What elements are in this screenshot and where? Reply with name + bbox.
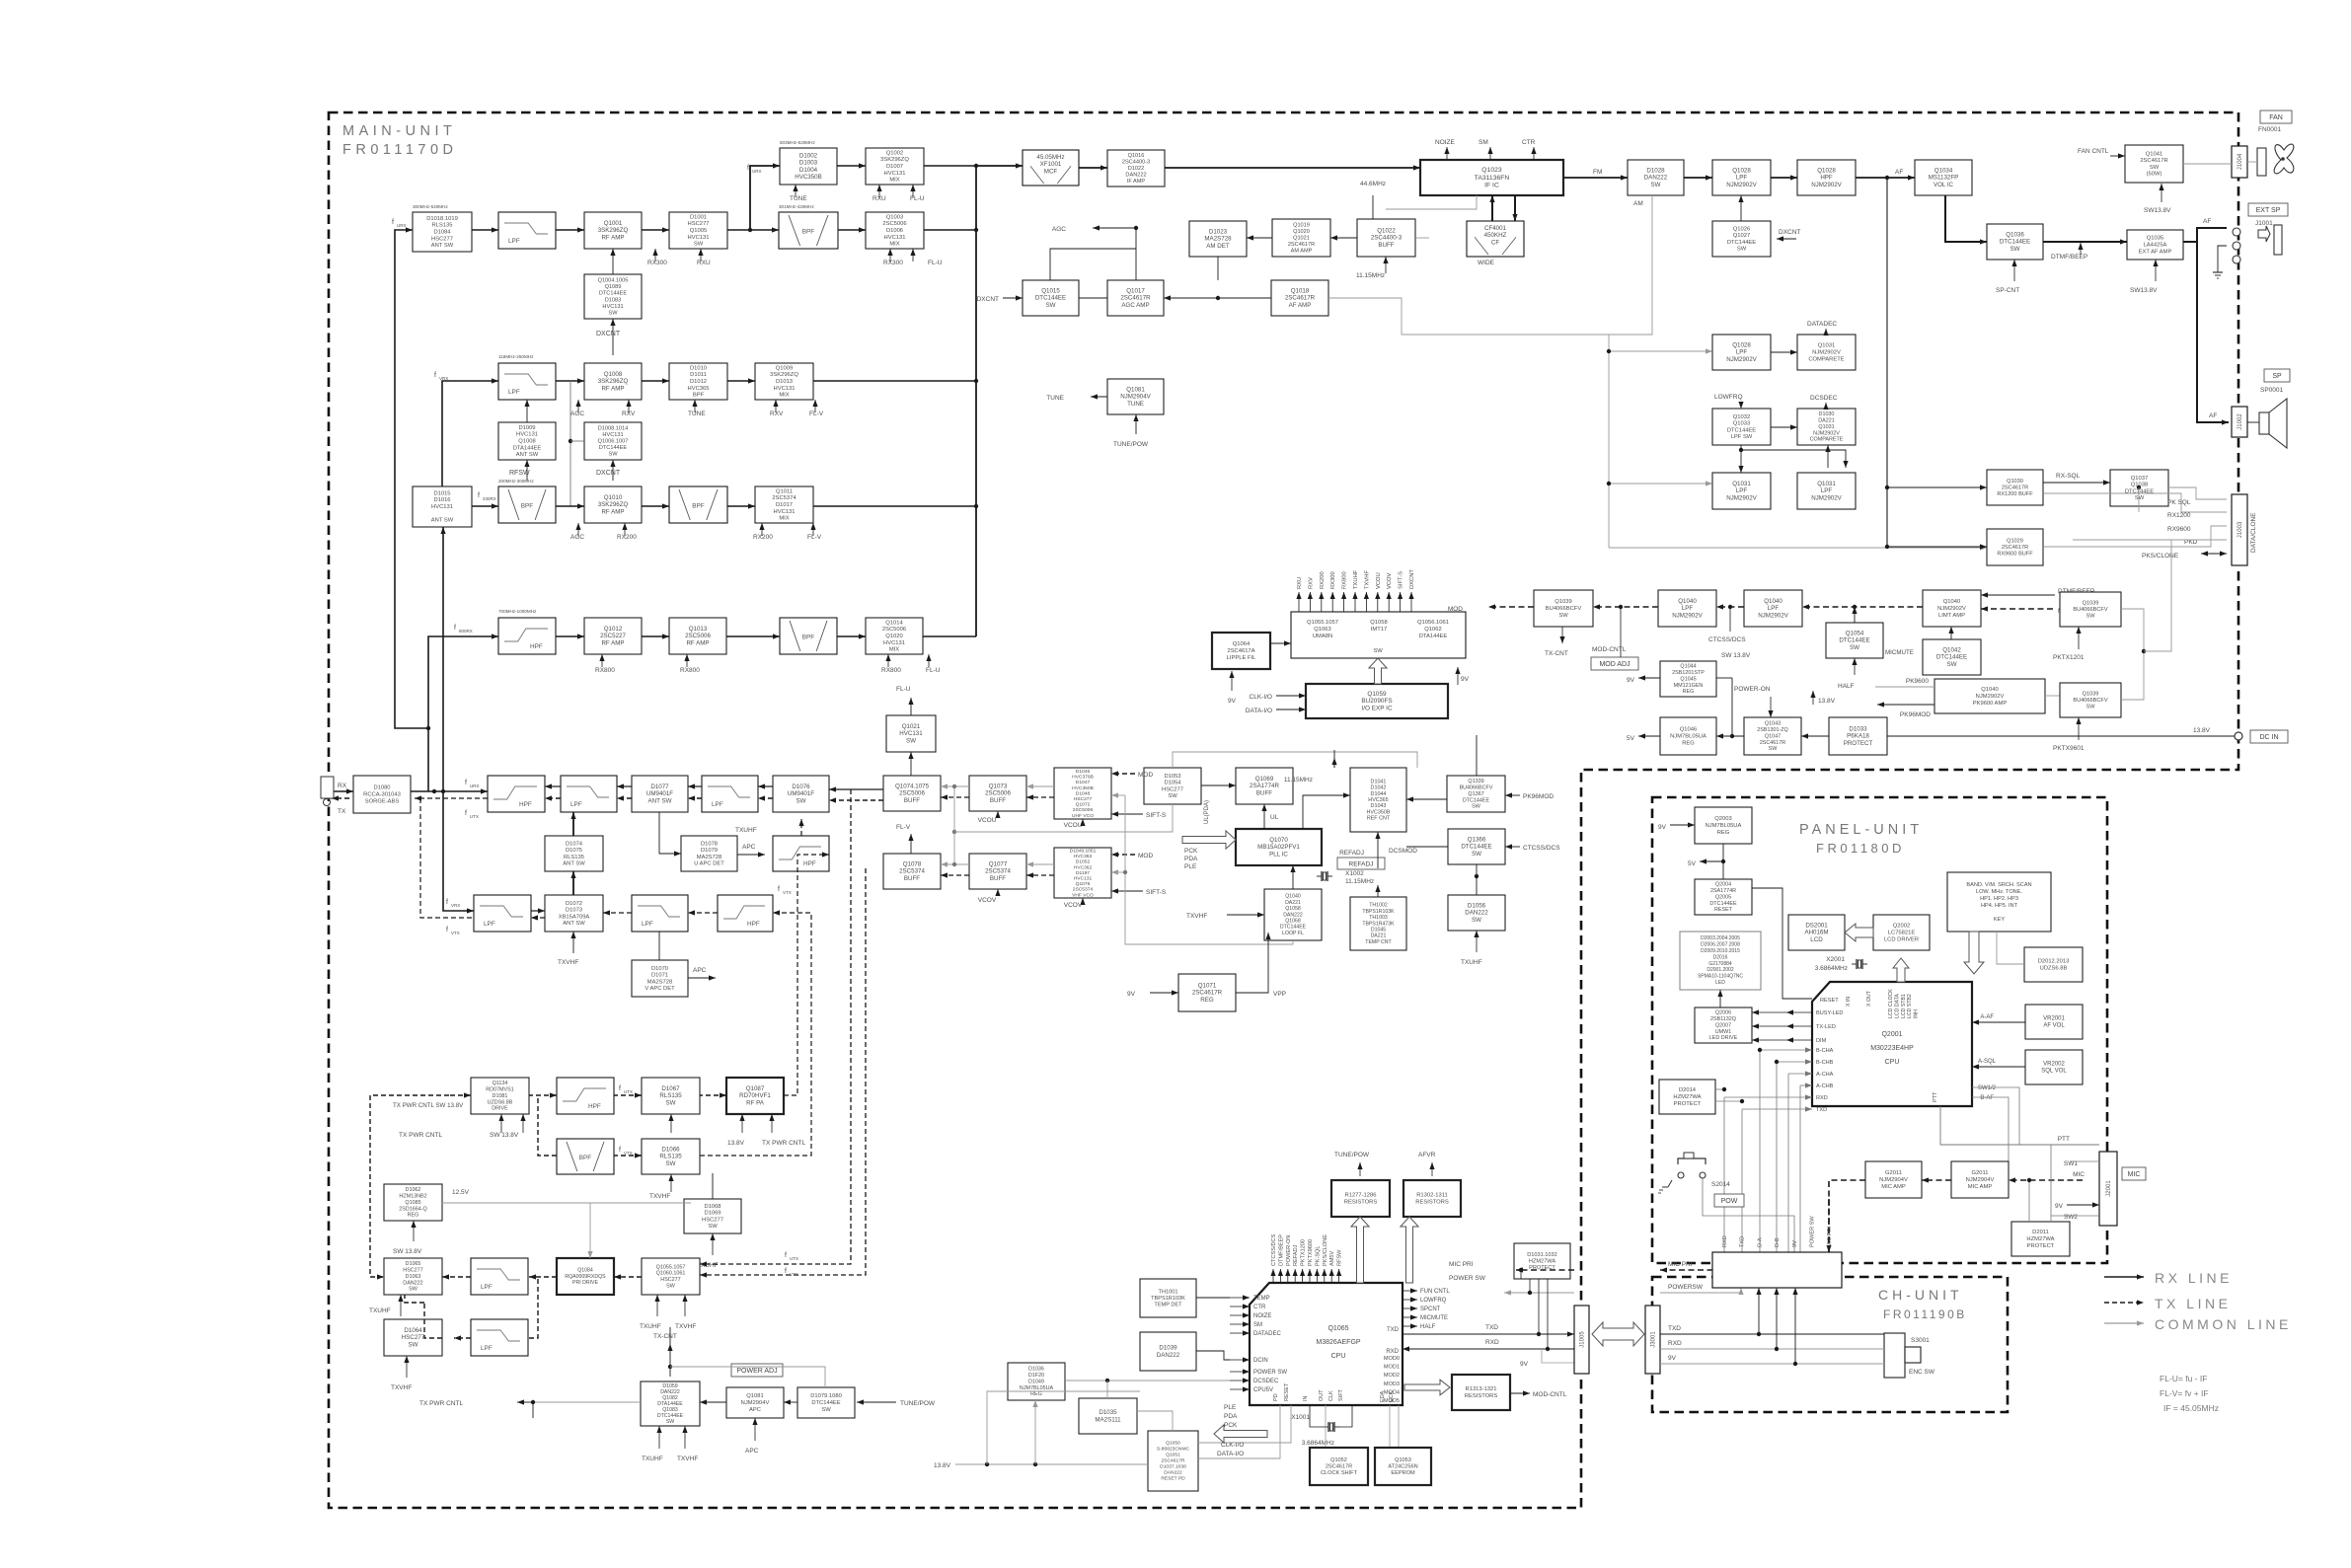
svg-text:D1077: D1077 — [650, 784, 669, 790]
RF amp Q1012 — [584, 618, 642, 654]
svg-text:SW: SW — [821, 1407, 831, 1413]
RXV stub Q1009 — [773, 400, 778, 412]
svg-text:9V: 9V — [1668, 1355, 1677, 1362]
svg-text:CPU: CPU — [1885, 1059, 1900, 1066]
svg-text:FR01180D: FR01180D — [1816, 841, 1905, 856]
buffer Q1022 — [1357, 219, 1415, 257]
wire 12.5V to D1068 row — [442, 1202, 691, 1204]
wire Q2004 to CPU RESET — [1752, 888, 1812, 999]
svg-text:11.15MHz: 11.15MHz — [1345, 878, 1374, 885]
svg-text:RX800: RX800 — [881, 667, 901, 674]
CPU right arrow FUN CNTL — [1403, 1288, 1417, 1293]
MAIN-UNIT dashed border — [329, 112, 2238, 1508]
resistor network R1313-1321 — [1452, 1375, 1510, 1410]
switch Q1021 — [886, 715, 936, 752]
junction AGC line — [1216, 296, 1220, 300]
switch D1067 — [642, 1078, 700, 1114]
wire Q1064 to SW block — [1270, 640, 1291, 645]
panel bottom connector — [1712, 1252, 1842, 1288]
svg-text:FR011170D: FR011170D — [342, 142, 458, 158]
svg-text:RD70HVF1: RD70HVF1 — [739, 1092, 771, 1099]
svg-text:RD07MVS1: RD07MVS1 — [486, 1087, 513, 1093]
svg-text:RX300: RX300 — [883, 260, 903, 266]
wire row3-row5 link vertical — [569, 381, 571, 506]
svg-text:CTCSS/DCS: CTCSS/DCS — [1523, 845, 1560, 852]
AF trunk down to SP — [2197, 242, 2229, 425]
svg-text:MA2S111: MA2S111 — [1095, 1416, 1121, 1423]
svg-text:DTC144EE: DTC144EE — [1035, 295, 1066, 302]
svg-text:SW: SW — [1472, 804, 1481, 810]
TXVHF stub D1066 — [668, 1174, 673, 1192]
svg-text:VCOU: VCOU — [1376, 572, 1382, 589]
svg-text:LED: LED — [1715, 980, 1725, 986]
svg-text:HVC131: HVC131 — [774, 509, 796, 515]
svg-text:D1081: D1081 — [493, 1093, 508, 1099]
RX800 stub Q1012 — [599, 654, 604, 667]
stub PK SQL down — [2138, 487, 2140, 512]
svg-text:DTC144EE: DTC144EE — [1727, 240, 1756, 246]
wire Q1015-Q1017 — [1079, 297, 1107, 299]
svg-text:Q1008: Q1008 — [604, 371, 623, 378]
AF amp Q1018 — [1271, 280, 1328, 316]
svg-text:Q1367: Q1367 — [1468, 791, 1483, 797]
svg-text:Q1040: Q1040 — [1678, 598, 1697, 605]
wire Q1003 out — [924, 229, 976, 231]
EEPROM Q1053 — [1375, 1448, 1431, 1485]
svg-text:503MHz-520MHz: 503MHz-520MHz — [780, 140, 815, 145]
TX dashed riser x375 — [370, 1095, 449, 1280]
wire D1072 to V APC — [658, 932, 660, 960]
svg-text:B-CHA: B-CHA — [1816, 1048, 1834, 1054]
wire Q1008-D1010 — [642, 378, 669, 383]
svg-text:301MHz-420MHz: 301MHz-420MHz — [779, 204, 814, 209]
svg-text:D1069: D1069 — [704, 1211, 720, 1217]
junction PK SQL — [2137, 485, 2141, 489]
svg-text:FL-V: FL-V — [807, 534, 822, 541]
wire SW1 line — [2019, 1144, 2099, 1146]
buffer Q1069 — [1236, 768, 1293, 804]
wire ant row dashed LPF-D1077 — [617, 795, 632, 800]
MOD ADJ boxed label — [1591, 657, 1638, 670]
svg-text:DTC144EE: DTC144EE — [2000, 239, 2030, 246]
svg-text:RX9600: RX9600 — [2167, 526, 2191, 533]
svg-text:CPU: CPU — [1331, 1353, 1346, 1360]
wire CPU pin NOIZE — [1230, 1312, 1250, 1317]
junction CH RXD — [1775, 1347, 1779, 1351]
TXUHF stub D1068 — [710, 1233, 715, 1255]
wire Q1010-BPF2 — [642, 503, 669, 508]
svg-text:2SC5006: 2SC5006 — [1073, 807, 1094, 813]
svg-text:PTT: PTT — [2058, 1136, 2070, 1143]
svg-text:SW: SW — [2086, 705, 2095, 710]
protect vertical 2 — [1529, 1279, 1531, 1293]
wire Q1034 to Q1036 — [1945, 195, 1987, 245]
BPF TX VHF — [557, 1139, 614, 1174]
svg-text:D1012: D1012 — [690, 379, 707, 385]
5V arrow Q1046 — [1638, 733, 1660, 738]
svg-text:SW: SW — [409, 1287, 418, 1293]
loop filter Q1040/Q1058/Q1068 — [1264, 889, 1322, 940]
svg-text:AF VOL: AF VOL — [2043, 1023, 2065, 1029]
TXVHF stub D1059 — [682, 1426, 687, 1449]
resistor network R1302-1311 — [1403, 1180, 1461, 1217]
svg-text:Q1036: Q1036 — [2006, 232, 2024, 239]
svg-text:UDZS6.8B: UDZS6.8B — [2040, 965, 2068, 971]
wire Q1004 to Q1001 — [610, 249, 615, 274]
svg-text:SIFT-S: SIFT-S — [1146, 889, 1167, 896]
wire LED driver to LED — [1717, 990, 1722, 1008]
f VTX dashed riser x426 — [420, 798, 474, 918]
svg-text:RX-SQL: RX-SQL — [2056, 473, 2081, 480]
svg-text:HSC277: HSC277 — [402, 1334, 425, 1341]
wire D1068 up — [712, 1173, 714, 1199]
svg-text:DTC144EE: DTC144EE — [599, 291, 628, 297]
svg-text:SIFT-S: SIFT-S — [1399, 571, 1404, 589]
svg-text:f: f — [446, 927, 448, 933]
switch D1056 — [1448, 895, 1505, 931]
junction bus row1 — [974, 164, 978, 168]
svg-text:Q1062: Q1062 — [1424, 627, 1441, 633]
svg-text:SW: SW — [1558, 613, 1568, 619]
HPF row6 — [498, 618, 556, 654]
svg-text:D1071: D1071 — [651, 973, 668, 979]
svg-text:DXCNT: DXCNT — [1409, 569, 1415, 589]
svg-text:SW1/2: SW1/2 — [1978, 1085, 1997, 1091]
svg-text:TUNE/POW: TUNE/POW — [1334, 1152, 1370, 1158]
buffer Q1073 — [969, 776, 1026, 811]
svg-text:D1079.1080: D1079.1080 — [810, 1393, 842, 1399]
AFVR stub R1302 — [1429, 1162, 1434, 1176]
regulator D1062/Q1085 — [384, 1184, 442, 1221]
svg-text:PTT: PTT — [1933, 1091, 1938, 1102]
svg-text:D1016: D1016 — [433, 497, 450, 503]
POWER ADJ boxed label — [731, 1364, 783, 1377]
svg-text:NJM2902V: NJM2902V — [1812, 350, 1841, 356]
svg-text:9V: 9V — [1658, 824, 1667, 831]
LPF Q1040 b — [1744, 590, 1802, 627]
svg-text:HVC365: HVC365 — [688, 386, 710, 392]
antenna switch D1074/D1075 — [545, 836, 603, 871]
open arrow PLE PDA PCK out of CPU — [1214, 1425, 1267, 1443]
svg-text:POWER SW: POWER SW — [1253, 1370, 1287, 1376]
svg-text:RXU: RXU — [697, 260, 711, 266]
svg-text:VCOU: VCOU — [1064, 822, 1083, 829]
TX-CNT riser — [667, 1344, 672, 1377]
svg-text:Q2003: Q2003 — [1714, 816, 1731, 822]
antenna switch D1072/D1073 — [545, 895, 603, 932]
svg-text:Q1063: Q1063 — [1314, 627, 1330, 633]
PKTX9601 stub — [2076, 717, 2081, 740]
RF amp Q1010 — [584, 486, 642, 523]
svg-text:Q1058: Q1058 — [1370, 620, 1387, 626]
svg-text:TUNE: TUNE — [790, 195, 807, 202]
svg-text:D1041: D1041 — [1371, 779, 1387, 784]
svg-text:TXVHF: TXVHF — [649, 1193, 670, 1200]
svg-text:BU4066BCFV: BU4066BCFV — [2073, 607, 2107, 613]
buffer Q1078 — [883, 854, 941, 889]
svg-text:2SC5006: 2SC5006 — [882, 221, 906, 227]
PKTX1201 stub — [2076, 627, 2081, 649]
svg-text:X2001: X2001 — [1826, 956, 1845, 963]
svg-text:TX-CNT: TX-CNT — [1545, 650, 1568, 657]
svg-text:Q1023: Q1023 — [1481, 167, 1502, 174]
wire TXD to J1005 — [1403, 1331, 1574, 1336]
TUNE stub row3 — [692, 400, 697, 412]
wire LPF8-D1072 — [603, 910, 632, 915]
svg-text:SPCNT: SPCNT — [1420, 1307, 1441, 1312]
wire CPU pin SM — [1230, 1321, 1250, 1326]
FL-U stub Q1003 — [910, 249, 915, 261]
svg-text:LPF SW: LPF SW — [1731, 434, 1753, 440]
svg-text:HP4. HP5. INT: HP4. HP5. INT — [1981, 903, 2018, 909]
svg-text:RF AMP: RF AMP — [686, 639, 709, 646]
signal arrow SIFT-S — [1398, 592, 1403, 612]
RXD line CH — [1660, 1348, 1884, 1350]
svg-text:RF AMP: RF AMP — [601, 508, 624, 515]
PK96MOD arrow Q1339 — [1505, 792, 1520, 797]
svg-text:2SC4617R: 2SC4617R — [2002, 485, 2028, 491]
reset Q2004/Q2005 — [1695, 879, 1752, 915]
svg-text:LPF: LPF — [1736, 349, 1748, 356]
CPU right arrow MICMUTE — [1403, 1314, 1417, 1319]
svg-text:Q1040: Q1040 — [1285, 894, 1301, 900]
svg-text:UZDS6.8B: UZDS6.8B — [488, 1099, 513, 1105]
svg-text:TX: TX — [338, 808, 346, 815]
svg-text:J1002: J1002 — [2237, 413, 2243, 430]
wire CPU pin CTR — [1230, 1304, 1250, 1308]
svg-text:Q1033: Q1033 — [1733, 421, 1750, 427]
wire Q1015 up — [1050, 249, 1136, 280]
DC IN — [2235, 732, 2242, 740]
svg-text:MOD ADJ: MOD ADJ — [1599, 661, 1630, 668]
svg-text:FN0001: FN0001 — [2258, 126, 2282, 133]
mixer Q1011 — [755, 486, 813, 523]
svg-text:Q1037: Q1037 — [2131, 476, 2148, 482]
DATA-I/O arrow — [1276, 707, 1306, 711]
svg-text:VTX: VTX — [451, 931, 460, 935]
svg-text:MOD2: MOD2 — [1384, 1373, 1400, 1379]
svg-text:Q1031: Q1031 — [1818, 343, 1835, 349]
connector J1002 — [2232, 407, 2247, 437]
wire ant row dashed D1077-LPF2 — [688, 795, 702, 800]
svg-text:SW: SW — [2010, 246, 2020, 253]
svg-text:REG: REG — [1200, 997, 1214, 1004]
FAN CNTL arrow — [2110, 153, 2125, 158]
S3001 rotary encoder — [1884, 1333, 1921, 1378]
svg-text:CLOCK SHIFT: CLOCK SHIFT — [1321, 1470, 1358, 1476]
svg-text:SW: SW — [694, 242, 704, 248]
svg-text:VTX: VTX — [783, 890, 792, 895]
TX-CNT up2 — [669, 1327, 671, 1344]
PK9600 line — [1875, 686, 1934, 688]
svg-text:2SC4617A: 2SC4617A — [1227, 648, 1254, 654]
svg-text:HVC131: HVC131 — [516, 432, 538, 438]
svg-text:D-B: D-B — [1775, 1237, 1781, 1247]
svg-text:SW: SW — [666, 1419, 674, 1425]
HPF Q1028 af — [1797, 160, 1856, 195]
POWER SW line — [1504, 1290, 1574, 1295]
signal arrow DXCNT — [1408, 592, 1413, 612]
svg-text:BPF: BPF — [693, 393, 705, 399]
svg-text:LPF: LPF — [570, 801, 582, 808]
svg-text:CF: CF — [1491, 239, 1499, 246]
signal arrow RX300 — [1330, 592, 1335, 612]
9V line CH — [1660, 1363, 1884, 1365]
svg-text:MCF: MCF — [1044, 168, 1058, 175]
junction bus row3 — [974, 379, 978, 383]
svg-text:Q1013: Q1013 — [689, 626, 708, 633]
driver Q1134/D1081 — [471, 1078, 529, 1114]
wire Q1026 to Q1028 — [1738, 195, 1743, 221]
wire Q1087-D1067 in — [700, 1092, 726, 1097]
svg-text:G2011: G2011 — [1972, 1170, 1989, 1176]
svg-text:9V: 9V — [1228, 698, 1237, 705]
svg-text:HVC365: HVC365 — [1368, 797, 1388, 803]
svg-text:RFSW: RFSW — [1337, 1249, 1343, 1266]
svg-text:Q1055.1057: Q1055.1057 — [656, 1264, 686, 1270]
wire AGC out — [1093, 225, 1136, 230]
wire into Q1031 LPF low — [1609, 481, 1712, 485]
svg-text:2SC4617R: 2SC4617R — [1760, 740, 1785, 746]
svg-text:J1003: J1003 — [2237, 521, 2243, 538]
RF amp Q1008 — [584, 363, 642, 400]
svg-text:VCOU: VCOU — [978, 817, 997, 824]
svg-text:MIX: MIX — [889, 647, 899, 653]
wire TUNE out — [1091, 394, 1107, 399]
svg-text:D1062: D1062 — [406, 1187, 421, 1193]
svg-text:TH1001: TH1001 — [1159, 1289, 1178, 1295]
wire D1053 top to REF CNT — [1173, 752, 1417, 768]
svg-text:ECK: ECK — [1389, 1390, 1395, 1402]
protector D1031/D1032 — [1514, 1243, 1570, 1279]
svg-text:D1065: D1065 — [406, 1261, 421, 1267]
switch Q1039 pktx9601 — [2060, 683, 2121, 717]
mixer Q1003 — [866, 212, 924, 249]
svg-text:PLL IC: PLL IC — [1269, 851, 1288, 858]
svg-text:Q1042: Q1042 — [1942, 647, 1961, 654]
RF amp Q1013 — [669, 618, 726, 654]
svg-text:2SC5374: 2SC5374 — [772, 495, 796, 501]
wire D2011 a — [2028, 1180, 2030, 1222]
svg-text:UMW1: UMW1 — [1715, 1029, 1731, 1035]
wire TH1001 to TEMP — [1196, 1297, 1230, 1299]
svg-text:SIFT-S: SIFT-S — [1146, 812, 1167, 819]
svg-text:MIX: MIX — [779, 516, 789, 522]
wire fVRX into LPF row3 — [442, 378, 498, 486]
svg-text:HPF: HPF — [588, 1103, 601, 1110]
svg-text:CTR: CTR — [1253, 1305, 1266, 1310]
wire ant row solid LPF2-D1076 — [758, 784, 773, 788]
svg-text:12.5V: 12.5V — [452, 1189, 470, 1196]
svg-text:Q1028: Q1028 — [1732, 168, 1751, 175]
svg-text:REG: REG — [1683, 689, 1695, 695]
svg-text:B-CHB: B-CHB — [1816, 1060, 1834, 1066]
svg-text:D1008.1014: D1008.1014 — [598, 425, 628, 431]
VCOU stub2 — [1080, 819, 1085, 826]
wire XF1001-Q1016 — [1079, 165, 1107, 170]
junction Q1054 — [1853, 605, 1857, 609]
wire Q1071 VPP — [1236, 940, 1268, 993]
VPP up stub — [1265, 933, 1270, 940]
svg-text:Q1004.1005: Q1004.1005 — [598, 278, 629, 284]
svg-text:HVC363: HVC363 — [1074, 854, 1093, 859]
svg-text:13.8V: 13.8V — [934, 1462, 951, 1469]
svg-text:CTCSS/DCS: CTCSS/DCS — [1271, 1233, 1277, 1266]
wire VCO net to D1053 — [954, 804, 1173, 832]
svg-text:Q1019: Q1019 — [1293, 222, 1310, 228]
wire Q1002 out — [924, 165, 976, 167]
signal arrow RXV — [1308, 592, 1313, 612]
svg-text:RESET: RESET — [1284, 1382, 1290, 1401]
svg-text:800RX: 800RX — [459, 629, 473, 634]
legend RX LINE arrow — [2104, 1274, 2144, 1279]
RX IF bus vertical — [975, 166, 977, 636]
svg-text:TXD: TXD — [1668, 1325, 1681, 1332]
junction AF trunk a — [1885, 485, 1889, 489]
svg-text:REG: REG — [1717, 830, 1730, 836]
LPF Q1028 datadec — [1712, 335, 1771, 370]
RX200 stub Q1011 — [759, 523, 764, 536]
wire LPF-comp datadec — [1771, 349, 1797, 354]
wire Q1032-D1030 — [1771, 424, 1797, 429]
svg-text:LPF: LPF — [1821, 487, 1833, 494]
AF vertical trunk — [1886, 178, 1888, 547]
svg-text:Q2006: Q2006 — [1715, 1010, 1731, 1016]
ground symbol J1001 — [2213, 266, 2223, 278]
TX PWR CNTL arrow — [517, 1399, 533, 1404]
svg-text:HVC131: HVC131 — [431, 504, 453, 510]
svg-text:11.15MHz: 11.15MHz — [1284, 777, 1313, 784]
svg-text:MOD: MOD — [1138, 772, 1153, 779]
svg-text:MA2S728: MA2S728 — [647, 979, 672, 985]
svg-text:PK SQL: PK SQL — [2167, 499, 2191, 506]
wire VR2001 to CPU — [1972, 1019, 2025, 1024]
svg-text:LOWFRQ: LOWFRQ — [1420, 1298, 1447, 1304]
switch Q1043/Q1047 — [1744, 717, 1801, 755]
wire Q1037 to J1003 PK SQL — [2168, 487, 2227, 499]
svg-text:SW: SW — [666, 1284, 676, 1290]
svg-text:Q1073: Q1073 — [989, 784, 1008, 790]
svg-text:COMMON LINE: COMMON LINE — [2155, 1316, 2292, 1332]
switch Q1039 mod — [1534, 590, 1593, 627]
junction AF node — [1885, 176, 1889, 180]
svg-text:Q1032: Q1032 — [1733, 414, 1750, 420]
svg-text:2SC4617R: 2SC4617R — [2002, 545, 2028, 551]
svg-text:3SK296ZQ: 3SK296ZQ — [880, 157, 909, 163]
svg-text:A-CHB: A-CHB — [1816, 1083, 1834, 1089]
svg-text:WIDE: WIDE — [1478, 260, 1495, 266]
svg-text:X1002: X1002 — [1345, 870, 1364, 877]
svg-text:Q1011: Q1011 — [776, 488, 793, 494]
svg-text:2SC5006: 2SC5006 — [882, 627, 906, 633]
wire ECK to Q1053 — [1398, 1405, 1400, 1448]
protector D2011 — [2011, 1222, 2070, 1256]
svg-text:LPF: LPF — [481, 1345, 493, 1352]
wire RFSW into D1009 — [524, 460, 529, 481]
svg-text:TUNE: TUNE — [688, 411, 706, 417]
AF trunk to speaker jacks — [2197, 228, 2227, 242]
svg-text:Q1006.1007: Q1006.1007 — [598, 439, 629, 445]
svg-text:TA31136FN: TA31136FN — [1475, 175, 1510, 182]
svg-text:Q2001: Q2001 — [1881, 1031, 1902, 1038]
wire bus to XF1001 — [976, 163, 1023, 168]
svg-text:A-SQL: A-SQL — [1978, 1059, 1997, 1065]
POW boxed label — [1714, 1194, 1744, 1207]
svg-text:D1031.1032: D1031.1032 — [1527, 1252, 1556, 1258]
wire J1004 to fan — [2247, 161, 2257, 163]
svg-text:D1047: D1047 — [1076, 780, 1091, 785]
svg-text:DCIN: DCIN — [1253, 1358, 1268, 1364]
